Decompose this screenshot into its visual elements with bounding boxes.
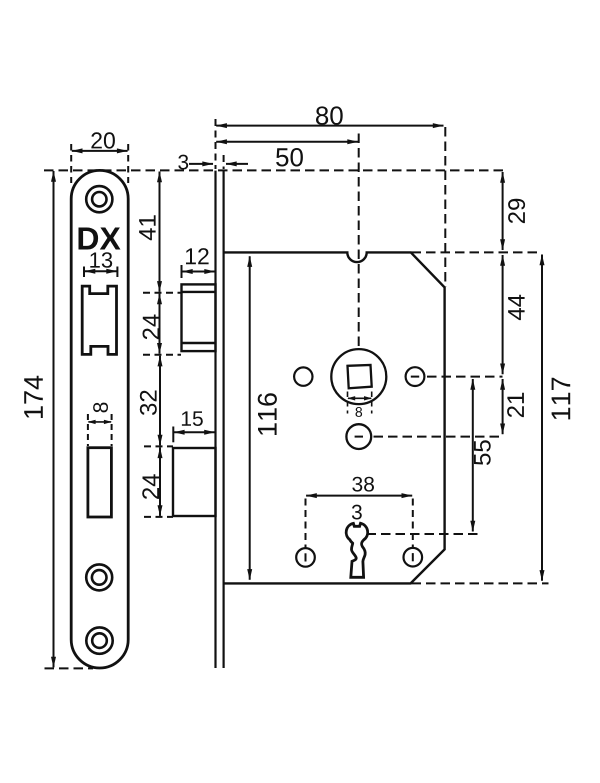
deadbolt cutout on faceplate (88, 448, 112, 517)
dashed extension above plate edge left (215, 119, 217, 169)
screw hole middle outer (86, 564, 112, 590)
dimension 8 spindle dashed extensions (347, 392, 349, 414)
pointer arrow right to plate edge (189, 163, 213, 165)
screw hole top inner (92, 192, 106, 206)
label 116 rotated (258, 393, 277, 435)
spindle follower circle (331, 349, 386, 404)
screw hole bottom outer (86, 627, 112, 653)
dimension 116 arrow line (249, 256, 251, 580)
latch cutout on faceplate (82, 286, 116, 354)
dimension 13 ticks (83, 267, 85, 278)
bottom hole left (296, 548, 315, 567)
screw hole bottom inner (92, 633, 107, 648)
dashed line deadbolt top level (144, 445, 173, 447)
label 55 rotated (474, 440, 491, 465)
faceplate edge view right line (223, 171, 225, 668)
dimension 15 tick (172, 427, 174, 443)
dashed line latch top level (143, 292, 181, 294)
label 15 (182, 411, 203, 426)
dimension 50 arrow line (216, 141, 358, 143)
label 44 rotated (508, 295, 525, 320)
dimension 174 arrow line (53, 171, 55, 667)
label 3 keyhole (352, 505, 362, 520)
label 21 rotated (507, 393, 524, 417)
tick in bottom hole right (412, 553, 414, 561)
dimension 8 spindle arrow line (348, 397, 371, 399)
label 24 rotated lower (142, 474, 159, 499)
dashed centerline through spindle (358, 134, 360, 376)
dashed line deadbolt bottom level (144, 516, 173, 518)
dimension 38 dashed extension right (412, 499, 414, 552)
tick in oval hole (355, 436, 363, 438)
dimension 20 dashed extensions (70, 144, 72, 183)
label 12 (186, 248, 209, 264)
label 174 rotated (24, 376, 43, 418)
dashed line case bottom level right (412, 582, 549, 584)
label 41 rotated (139, 215, 156, 240)
label 80 (316, 106, 343, 125)
case hole left of spindle (294, 367, 312, 385)
label 32 rotated (140, 391, 157, 416)
spindle square hole (348, 365, 372, 388)
label 8 spindle (356, 407, 363, 417)
label 13 (90, 252, 112, 268)
dimension 41 arrow line (159, 172, 161, 292)
dimension 44 arrow line (502, 255, 504, 374)
label 3 faceplate thickness (178, 155, 188, 170)
dimension 29 arrow line (502, 172, 504, 250)
keyhole (346, 523, 368, 577)
dimension 20 arrow line (72, 150, 128, 152)
tick in right hole (411, 376, 419, 378)
screw hole middle inner (92, 570, 107, 585)
dimension 55 arrow line (472, 379, 474, 532)
case hole right of spindle (406, 367, 425, 386)
screw hole top outer (86, 186, 112, 212)
dimension 38 dashed extension left (305, 499, 307, 552)
dimension 21 arrow line (502, 379, 504, 434)
dimension 8 arrow line (88, 421, 111, 423)
faceplate outline (71, 170, 128, 668)
dimension 13 arrow line (85, 270, 117, 272)
dimension 80 arrow line (216, 125, 443, 127)
dimension 15 arrow line (174, 431, 215, 433)
pointer arrow left to plate edge (226, 163, 248, 165)
dimension 8 dashed extensions (87, 414, 89, 446)
dashed line keyhole level right (367, 533, 479, 535)
dimension 24 upper arrow line (159, 294, 161, 354)
oval hole below spindle (346, 424, 371, 449)
dashed line latch bottom level (143, 354, 181, 356)
dashed line case top level right (412, 251, 539, 253)
label 20 (91, 132, 115, 148)
lock case outline (224, 252, 445, 583)
label 50 (276, 148, 303, 167)
bottom hole right (404, 548, 423, 567)
label 29 rotated (508, 199, 525, 223)
label 117 rotated (552, 378, 571, 420)
dimension 12 arrow line (182, 271, 215, 273)
dashed line oval hole level right (374, 436, 503, 438)
dimension 12 tick (181, 265, 183, 278)
dashed extension case right edge up (444, 127, 446, 287)
dimension 117 arrow line (541, 255, 543, 581)
DX logo (79, 228, 121, 250)
faceplate edge view left line (214, 171, 216, 668)
label 8 rotated (deadbolt cutout width) (93, 403, 108, 413)
label 24 rotated upper (143, 315, 160, 340)
deadbolt side view (173, 448, 216, 516)
dashed extension above plate edge right (223, 155, 225, 169)
tick in bottom hole left (305, 553, 307, 561)
dashed line spindle level right (427, 376, 503, 378)
dimension 24 lower arrow line (159, 447, 161, 516)
dimension 32 arrow line (159, 356, 161, 446)
wire dashed horizontal line at plate top y=170 (44, 169, 503, 171)
latch bolt side view (182, 284, 216, 351)
dimension 38 arrow line (306, 495, 412, 497)
wire dashed horizontal line at plate bottom y=668 (45, 667, 94, 669)
label 38 (352, 477, 374, 492)
